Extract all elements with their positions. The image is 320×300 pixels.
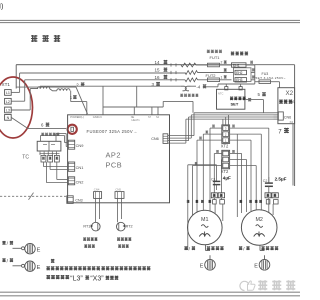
svg-text:POWER(L): POWER(L) bbox=[70, 115, 84, 119]
svg-text:2.5µF: 2.5µF bbox=[275, 177, 287, 182]
svg-text:EH3: EH3 bbox=[236, 78, 242, 82]
svg-text:5ET 3.15A 250V~: 5ET 3.15A 250V~ bbox=[256, 76, 286, 80]
svg-text:16: 16 bbox=[155, 75, 161, 80]
svg-text:SET: SET bbox=[231, 102, 239, 107]
svg-text:HEAT1: HEAT1 bbox=[132, 118, 141, 122]
svg-text:C1: C1 bbox=[211, 177, 216, 181]
svg-text:PCB: PCB bbox=[106, 161, 123, 170]
svg-text:CN1: CN1 bbox=[76, 165, 84, 170]
svg-text:GND-N: GND-N bbox=[93, 115, 102, 119]
svg-text:FUT1: FUT1 bbox=[210, 55, 221, 60]
svg-text:CN9: CN9 bbox=[76, 143, 84, 148]
svg-text:14: 14 bbox=[155, 60, 161, 65]
svg-text:E: E bbox=[254, 264, 258, 270]
svg-text:C2: C2 bbox=[263, 179, 268, 183]
svg-text:NTC: NTC bbox=[218, 92, 223, 96]
svg-text:X2: X2 bbox=[290, 120, 294, 124]
svg-text:1: 1 bbox=[221, 75, 223, 79]
svg-text:TC: TC bbox=[22, 155, 29, 161]
svg-text:CN6: CN6 bbox=[284, 115, 291, 119]
svg-text:M1: M1 bbox=[201, 217, 209, 223]
svg-text:CN6: CN6 bbox=[151, 137, 159, 141]
svg-text:EH2: EH2 bbox=[236, 71, 242, 75]
svg-text:RT2: RT2 bbox=[126, 224, 133, 228]
svg-text:L3: L3 bbox=[6, 109, 10, 113]
svg-text:E: E bbox=[37, 247, 41, 253]
svg-text:2: 2 bbox=[221, 61, 223, 65]
svg-text:E: E bbox=[37, 265, 41, 271]
svg-text:N: N bbox=[7, 116, 10, 120]
svg-text:AP2: AP2 bbox=[106, 151, 121, 160]
svg-text:“L3”: “L3” bbox=[70, 276, 83, 283]
svg-text:4µF: 4µF bbox=[223, 175, 231, 180]
svg-text:(I): (I) bbox=[0, 1, 3, 10]
svg-text:L2: L2 bbox=[6, 100, 10, 104]
svg-text:,: , bbox=[99, 266, 100, 271]
svg-text:CN2: CN2 bbox=[76, 179, 84, 184]
svg-text:L1: L1 bbox=[6, 91, 10, 95]
svg-text:FUSE007 325A 250V→: FUSE007 325A 250V→ bbox=[87, 129, 138, 134]
svg-text:XT2: XT2 bbox=[221, 169, 229, 174]
svg-text:EH1: EH1 bbox=[233, 63, 240, 67]
svg-text:X2: X2 bbox=[286, 90, 294, 97]
svg-text:E: E bbox=[200, 264, 204, 270]
svg-text:“X3”: “X3” bbox=[90, 276, 104, 283]
svg-text:RT1: RT1 bbox=[83, 224, 90, 228]
svg-text:CN3: CN3 bbox=[75, 198, 82, 202]
svg-text:XT2: XT2 bbox=[221, 144, 229, 149]
svg-text:CN5: CN5 bbox=[115, 188, 121, 192]
svg-text:FUT2: FUT2 bbox=[206, 73, 217, 78]
svg-text:15: 15 bbox=[155, 68, 161, 73]
svg-text:M2: M2 bbox=[255, 217, 263, 223]
svg-text:CN4: CN4 bbox=[94, 188, 100, 192]
